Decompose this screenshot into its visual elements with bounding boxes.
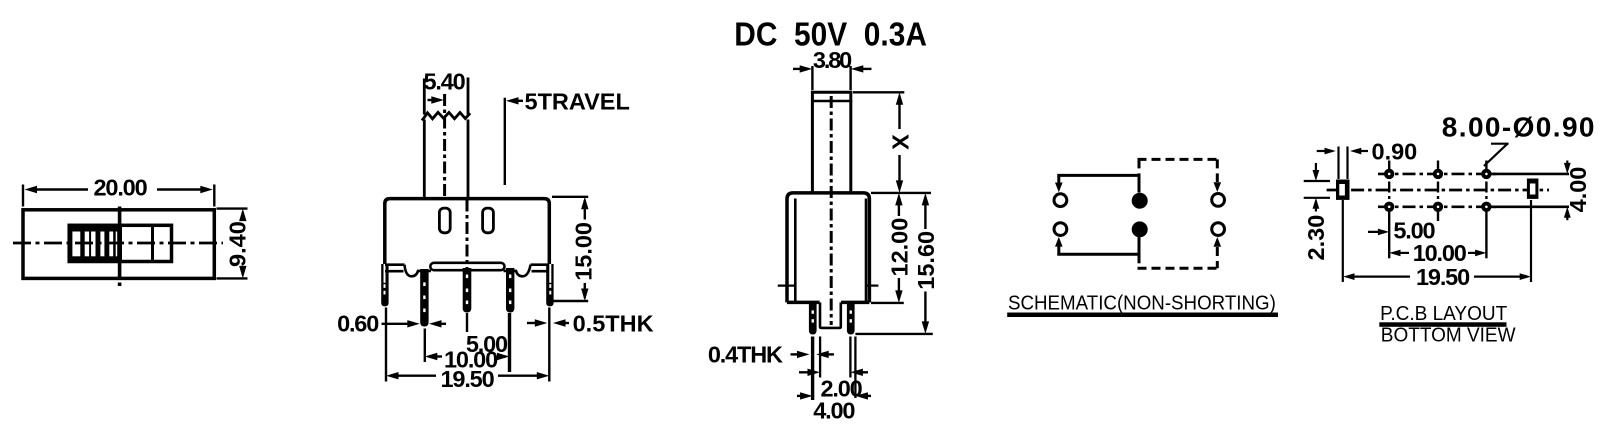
raised center seam (pill slot) <box>430 263 504 270</box>
common contact bottom-middle (filled) <box>1132 221 1148 237</box>
svg-text:5.40: 5.40 <box>423 69 465 95</box>
svg-text:X: X <box>888 134 914 150</box>
terminal circle top-left <box>1054 194 1067 207</box>
svg-text:2.30: 2.30 <box>1303 215 1329 261</box>
terminal pin 2 (middle) <box>463 268 472 313</box>
svg-text:0.60: 0.60 <box>337 311 379 337</box>
column centerlines <box>1389 161 1486 259</box>
svg-text:0.4THK: 0.4THK <box>708 342 783 368</box>
svg-text:12.00: 12.00 <box>886 218 912 277</box>
base seam left segments <box>385 265 431 277</box>
dimension 0.4THK <box>708 342 834 368</box>
svg-text:15.00: 15.00 <box>571 222 597 281</box>
dashed wire bottom (middle to right) <box>1138 247 1219 268</box>
terminal circle bottom-right <box>1212 223 1225 236</box>
dimension 9.40 <box>217 209 251 279</box>
side leg 2 <box>847 302 855 334</box>
dimension 4.00 (pcb) <box>1564 161 1591 221</box>
terminal pin 1 (long, left) <box>420 269 428 327</box>
side body outline <box>787 193 869 303</box>
dimension 20.00 <box>23 175 214 207</box>
dimension 12.00 <box>871 193 931 303</box>
knob outline (top view) <box>69 225 171 261</box>
dimension 4.00 <box>797 392 871 423</box>
common contact top-middle (filled) <box>1132 193 1148 209</box>
knob serration (black block with white slots) <box>69 225 123 263</box>
extension lines below front view <box>386 308 549 382</box>
svg-text:20.00: 20.00 <box>94 175 148 201</box>
dimension 2.30 <box>1303 163 1330 260</box>
svg-text:SCHEMATIC(NON-SHORTING): SCHEMATIC(NON-SHORTING) <box>1008 292 1276 315</box>
right mounting flange (front) <box>546 264 553 306</box>
pad hole B1 <box>1384 202 1394 212</box>
svg-text:10.00: 10.00 <box>1413 240 1467 266</box>
svg-text:19.50: 19.50 <box>1416 264 1470 290</box>
hole slot 1 in body <box>439 208 450 233</box>
actuator (side) <box>811 91 852 194</box>
dimension 15.00 <box>552 197 597 301</box>
svg-text:9.40: 9.40 <box>225 221 251 267</box>
dimension 5.00 (pcb) <box>1368 218 1436 244</box>
hole callout 8.00-Ø0.90 <box>1442 112 1596 167</box>
side centerline <box>830 96 833 325</box>
pad hole A2 <box>1433 169 1443 179</box>
pad hole B2 <box>1433 202 1443 212</box>
svg-text:4.00: 4.00 <box>813 397 855 423</box>
svg-text:8.00-Ø0.90: 8.00-Ø0.90 <box>1442 112 1596 143</box>
knob divider line <box>151 227 154 260</box>
solid wire top (left to middle) <box>1055 175 1140 192</box>
svg-text:4.00: 4.00 <box>1565 167 1591 213</box>
arrow into bottom-right terminal <box>1214 237 1222 247</box>
terminal circle top-right <box>1212 194 1225 207</box>
dimension 10.00 (front) <box>425 346 510 372</box>
pad hole A3 <box>1481 169 1491 179</box>
schematic title <box>1007 292 1278 317</box>
dimension 0.5THK <box>527 311 654 337</box>
pad hole A1 <box>1384 169 1394 179</box>
dimension 15.60 <box>855 193 939 334</box>
extension lines below pads <box>1343 200 1531 282</box>
svg-text:BOTTOM VIEW: BOTTOM VIEW <box>1381 324 1516 347</box>
pcb layout title <box>1379 303 1516 347</box>
body outline (front) <box>385 199 550 304</box>
dimension 3.80 <box>793 47 872 90</box>
dimension 0.90 <box>1317 139 1418 180</box>
center row dash-dot line <box>1327 189 1549 192</box>
right slot pad <box>1527 179 1539 199</box>
svg-text:19.50: 19.50 <box>441 366 495 392</box>
rating text <box>734 15 927 53</box>
pad hole B3 <box>1481 202 1491 212</box>
svg-text:3.80: 3.80 <box>813 47 852 73</box>
top view body outline <box>23 210 214 279</box>
left mounting flange (front) <box>381 264 388 306</box>
svg-text:15.60: 15.60 <box>913 231 939 290</box>
base seam right segments <box>504 265 549 277</box>
hole slot 2 in body <box>483 208 494 233</box>
label 5TRAVEL with leader <box>505 88 630 185</box>
dimension 5.40 <box>423 69 465 104</box>
arrow into top-right terminal <box>1214 182 1222 192</box>
knob centerline <box>443 94 446 196</box>
dimension 19.50 (front) <box>386 366 549 392</box>
row 2 line (through bottom pads) <box>1378 206 1569 209</box>
dimension 19.50 (pcb) <box>1343 264 1531 290</box>
side leg 1 <box>809 302 817 334</box>
svg-text:0.5THK: 0.5THK <box>573 311 654 337</box>
horizontal centerline of top view <box>13 242 223 245</box>
dimension 5.00 (front) <box>466 331 508 357</box>
svg-text:0.90: 0.90 <box>1372 139 1418 165</box>
break (zigzag) line on knob <box>422 112 470 120</box>
body centerline (front) <box>466 200 469 269</box>
terminal pin 3 (right) <box>506 268 514 313</box>
row 1 line (through top pads) <box>1378 173 1569 176</box>
dimension 10.00 (pcb) <box>1389 240 1486 266</box>
solid wire bottom (left to middle) <box>1055 237 1140 255</box>
dimension X <box>853 92 914 193</box>
central shaft channel below body <box>820 302 841 328</box>
dashed wire top (middle to right) <box>1138 159 1219 182</box>
svg-text:5TRAVEL: 5TRAVEL <box>525 88 630 114</box>
actuator knob sides <box>424 78 468 198</box>
vertical centerline of top view <box>118 207 122 287</box>
dimension 0.60 <box>337 311 446 337</box>
terminal circle bottom-left <box>1054 223 1067 236</box>
svg-text:P.C.B LAYOUT: P.C.B LAYOUT <box>1380 303 1507 326</box>
left slot pad <box>1336 180 1350 200</box>
flange inner lines and feet (side) <box>778 199 879 302</box>
dimension 2.00 <box>799 369 868 402</box>
extension lines below side view legs <box>813 337 856 401</box>
